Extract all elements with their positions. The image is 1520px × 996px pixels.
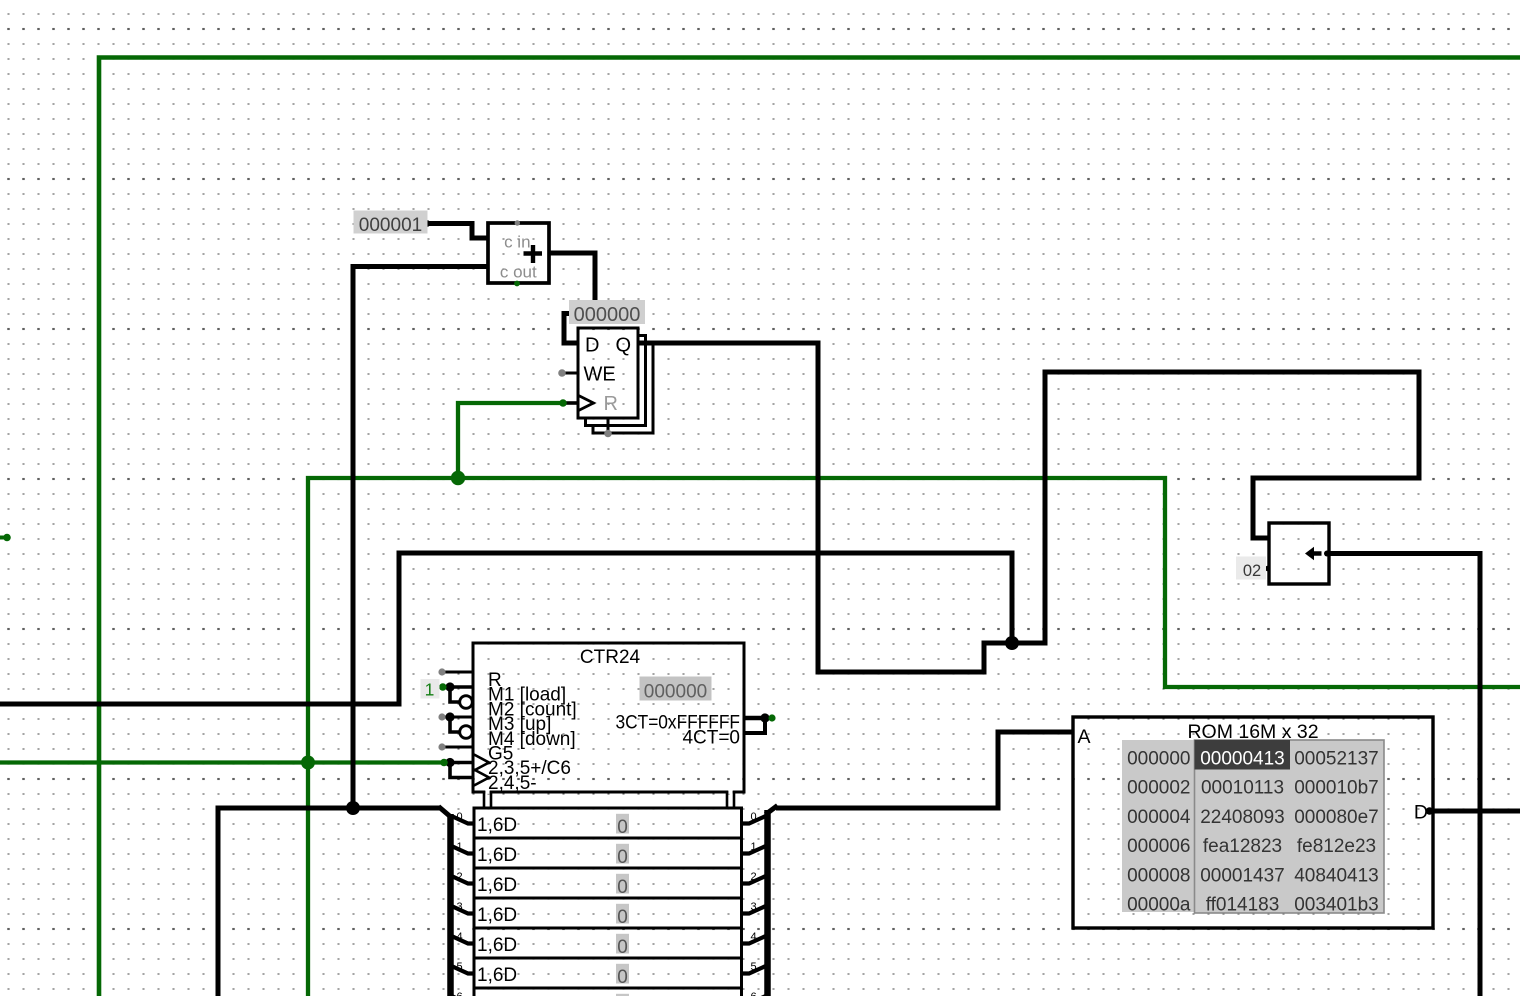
svg-text:1,6D: 1,6D [477,935,517,956]
svg-text:R: R [604,393,618,415]
svg-text:000010b7: 000010b7 [1294,778,1379,799]
svg-text:1,6D: 1,6D [477,815,517,836]
svg-text:fe812e23: fe812e23 [1297,836,1376,857]
svg-text:02: 02 [1243,562,1261,580]
svg-text:22408093: 22408093 [1200,807,1285,828]
svg-text:CTR24: CTR24 [580,647,641,668]
svg-text:1,6D: 1,6D [477,875,517,896]
svg-text:00000413: 00000413 [1200,749,1285,770]
svg-text:D: D [585,335,599,357]
svg-text:5: 5 [456,961,462,973]
svg-text:c out: c out [500,263,537,282]
svg-text:00000a: 00000a [1127,895,1191,916]
svg-text:000080e7: 000080e7 [1294,807,1379,828]
svg-text:D: D [1414,802,1428,824]
svg-text:3: 3 [750,901,756,913]
svg-text:000004: 000004 [1127,807,1191,828]
svg-text:0: 0 [617,967,628,988]
svg-text:2: 2 [750,871,756,883]
svg-text:0: 0 [617,817,628,838]
svg-text:WE: WE [584,364,616,386]
svg-text:003401b3: 003401b3 [1294,895,1379,916]
svg-text:Q: Q [615,335,631,357]
svg-text:6: 6 [750,991,756,996]
svg-text:ff014183: ff014183 [1206,895,1280,916]
svg-text:0: 0 [617,847,628,868]
svg-text:0: 0 [617,877,628,898]
svg-text:5: 5 [750,961,756,973]
svg-text:2: 2 [456,871,462,883]
svg-text:A: A [1078,726,1091,748]
svg-text:0: 0 [750,811,756,823]
svg-text:000000: 000000 [1127,749,1190,770]
svg-text:1,6D: 1,6D [477,905,517,926]
svg-text:0: 0 [617,937,628,958]
svg-text:3: 3 [456,901,462,913]
svg-text:1: 1 [750,841,756,853]
svg-text:000002: 000002 [1127,778,1190,799]
svg-text:00010113: 00010113 [1201,778,1284,799]
svg-text:40840413: 40840413 [1294,865,1379,886]
svg-text:4: 4 [750,931,756,943]
svg-text:1,6D: 1,6D [477,965,517,986]
svg-text:000008: 000008 [1127,865,1190,886]
svg-text:1,6D: 1,6D [477,845,517,866]
svg-text:ROM 16M x 32: ROM 16M x 32 [1187,721,1318,743]
svg-text:4: 4 [456,931,462,943]
svg-text:000000: 000000 [574,304,641,326]
svg-text:2,4,5-: 2,4,5- [488,773,537,794]
svg-text:000006: 000006 [1127,836,1190,857]
svg-text:4CT=0: 4CT=0 [682,728,740,749]
svg-text:c in: c in [504,233,530,252]
svg-text:6: 6 [456,991,462,996]
svg-text:1: 1 [425,680,435,700]
svg-text:00052137: 00052137 [1294,749,1379,770]
svg-text:000001: 000001 [359,215,422,236]
svg-text:fea12823: fea12823 [1203,836,1282,857]
svg-text:1: 1 [456,841,462,853]
svg-text:0: 0 [456,811,462,823]
svg-text:0: 0 [617,907,628,928]
svg-text:000000: 000000 [644,682,707,703]
svg-text:00001437: 00001437 [1200,865,1285,886]
